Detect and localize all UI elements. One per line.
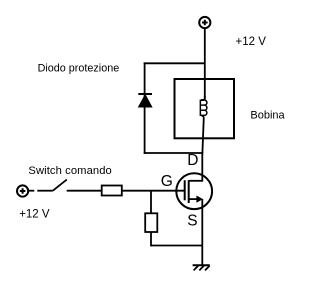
inductor L1 entry bend xyxy=(201,96,205,100)
wire: resistor to gate xyxy=(122,190,184,192)
relay box (Bobina) xyxy=(175,79,235,138)
ground tick 2 xyxy=(199,266,204,271)
ground bar xyxy=(193,264,210,266)
svg-text:Bobina: Bobina xyxy=(250,110,285,122)
wire: resistor R2 to bottom rail xyxy=(150,232,152,246)
MOSFET Q1 channel bar xyxy=(188,180,190,203)
svg-text:+12 V: +12 V xyxy=(19,208,50,220)
MOSFET Q1 source lead xyxy=(189,198,197,200)
wire: top horizontal branch xyxy=(144,62,205,64)
ground tick 1 xyxy=(194,266,199,271)
inductor L1 coil loops xyxy=(201,100,207,115)
switch SW1 blade xyxy=(53,180,67,191)
resistor R2 (vertical) xyxy=(145,213,157,232)
inductor L1 exit bend xyxy=(201,115,204,153)
wire: source down to ground xyxy=(201,199,203,265)
wire: switch to resistor xyxy=(67,190,102,192)
svg-text:Diodo protezione: Diodo protezione xyxy=(38,62,120,74)
wire: diode branch vertical xyxy=(144,62,146,153)
wire: switch left contact xyxy=(37,190,53,192)
inductor L1 left bar xyxy=(199,100,201,116)
svg-text:+12 V: +12 V xyxy=(236,36,267,48)
svg-text:Switch comando: Switch comando xyxy=(28,165,111,177)
diode D1 cathode bar xyxy=(138,93,152,95)
diode D1 anode triangle xyxy=(139,95,152,107)
MOSFET Q1 source arrow xyxy=(196,196,203,203)
svg-text:D: D xyxy=(187,152,198,169)
svg-text:S: S xyxy=(187,212,197,229)
wire: terminal down to coil xyxy=(204,28,206,98)
MOSFET Q1 drain lead xyxy=(189,180,203,182)
terminal +12V bottom left xyxy=(17,185,28,196)
ground tick 3 xyxy=(205,266,210,271)
wire: bottom horizontal of diode loop xyxy=(144,152,204,154)
MOSFET Q1 body circle xyxy=(176,173,212,209)
resistor R1 (horizontal) xyxy=(102,186,122,196)
terminal +12V top xyxy=(199,17,210,28)
MOSFET Q1 gate bar xyxy=(184,180,186,200)
wire: gate branch down xyxy=(150,191,152,214)
wire: bottom rail horizontal xyxy=(151,245,202,247)
wire: terminal lead xyxy=(29,190,35,192)
svg-text:G: G xyxy=(161,173,173,190)
wire: drain vertical xyxy=(201,152,203,182)
